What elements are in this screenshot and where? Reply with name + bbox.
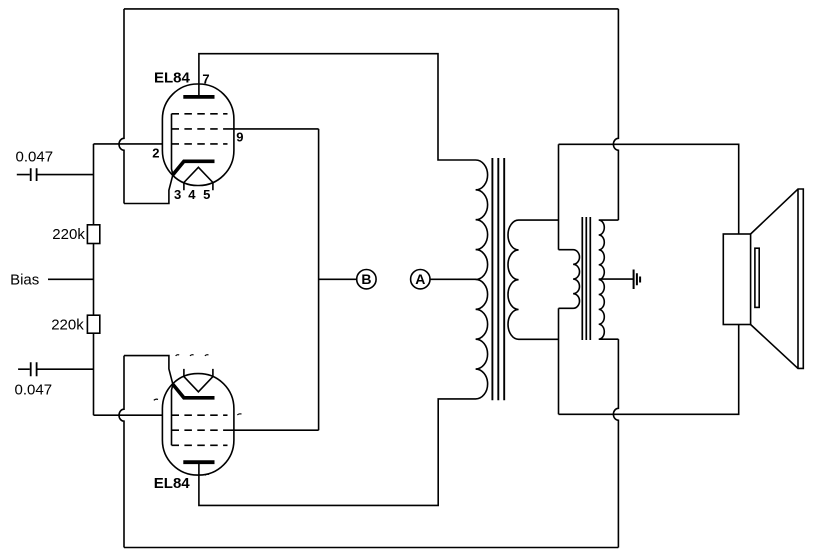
svg-text:2: 2 [152, 146, 159, 161]
svg-text:0.047: 0.047 [16, 148, 54, 165]
svg-text:Bias: Bias [10, 271, 39, 288]
svg-text:220k: 220k [51, 317, 84, 334]
svg-text:220k: 220k [52, 226, 85, 243]
svg-text:B: B [361, 271, 371, 287]
svg-text:3: 3 [174, 187, 181, 202]
svg-text:7: 7 [202, 72, 209, 87]
svg-text:0.047: 0.047 [15, 382, 53, 399]
svg-text:9: 9 [236, 129, 243, 144]
svg-text:4: 4 [188, 187, 196, 202]
svg-text:EL84: EL84 [154, 70, 191, 87]
svg-text:A: A [415, 271, 425, 287]
svg-text:EL84: EL84 [154, 475, 191, 492]
svg-text:5: 5 [203, 187, 210, 202]
